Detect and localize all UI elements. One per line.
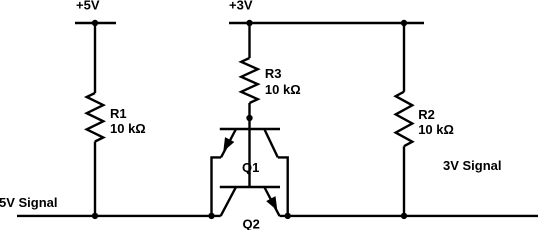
svg-text:R3: R3 — [265, 66, 282, 81]
svg-text:R1: R1 — [110, 106, 127, 121]
Q2 emitter arrow — [266, 196, 277, 210]
Q1 emitter arrow — [223, 137, 234, 151]
svg-text:10 kΩ: 10 kΩ — [418, 122, 454, 137]
node: Q1 emitter / 5V signal junction — [208, 213, 214, 219]
wire: +3V rail to R2 — [403, 23, 405, 92]
transistor Q1 emitter lead — [221, 129, 236, 157]
svg-text:Q1: Q1 — [242, 160, 259, 175]
svg-text:+3V: +3V — [229, 0, 253, 13]
resistor R2 — [396, 92, 413, 147]
wire: R1 to 5V signal line — [94, 142, 96, 216]
svg-text:5V Signal: 5V Signal — [0, 195, 58, 210]
+3V rail — [229, 22, 424, 24]
node: R1 / 5V signal junction — [92, 213, 98, 219]
transistor Q2 base bar — [220, 186, 280, 188]
node: +3V rail / R3 junction — [246, 20, 252, 26]
wire: 3V signal line — [280, 215, 539, 217]
node: R2 / 3V signal junction — [401, 213, 407, 219]
wire: Q1 collector to 3V signal line — [278, 157, 288, 216]
node: +3V rail / R2 junction — [401, 20, 407, 26]
svg-text:Q2: Q2 — [243, 216, 260, 230]
transistor Q2 collector lead — [221, 187, 236, 216]
wire: base line R3 to Q1/Q2 bases — [248, 103, 250, 187]
transistor Q1 base bar — [220, 128, 280, 130]
wire: +3V rail to R3 — [248, 23, 250, 58]
node: Q1 collector / 3V signal junction — [285, 213, 291, 219]
resistor R1 — [87, 93, 104, 142]
svg-text:10 kΩ: 10 kΩ — [265, 82, 301, 97]
svg-text:+5V: +5V — [76, 0, 100, 13]
+5V rail — [75, 22, 116, 24]
wire: +5V rail to R1 — [94, 23, 96, 93]
wire: Q1 emitter to 5V signal line — [212, 157, 222, 216]
wire: R2 to 3V signal line — [403, 146, 405, 216]
svg-text:3V Signal: 3V Signal — [443, 158, 502, 173]
transistor Q1 collector lead — [264, 129, 278, 157]
node: +5V rail junction — [92, 20, 98, 26]
wire: 5V signal line — [17, 215, 221, 217]
svg-text:10 kΩ: 10 kΩ — [110, 121, 146, 136]
transistor Q2 emitter lead — [264, 187, 279, 216]
node: R3 / base junction — [246, 115, 252, 121]
resistor R3 — [241, 58, 258, 103]
svg-text:R2: R2 — [418, 107, 435, 122]
